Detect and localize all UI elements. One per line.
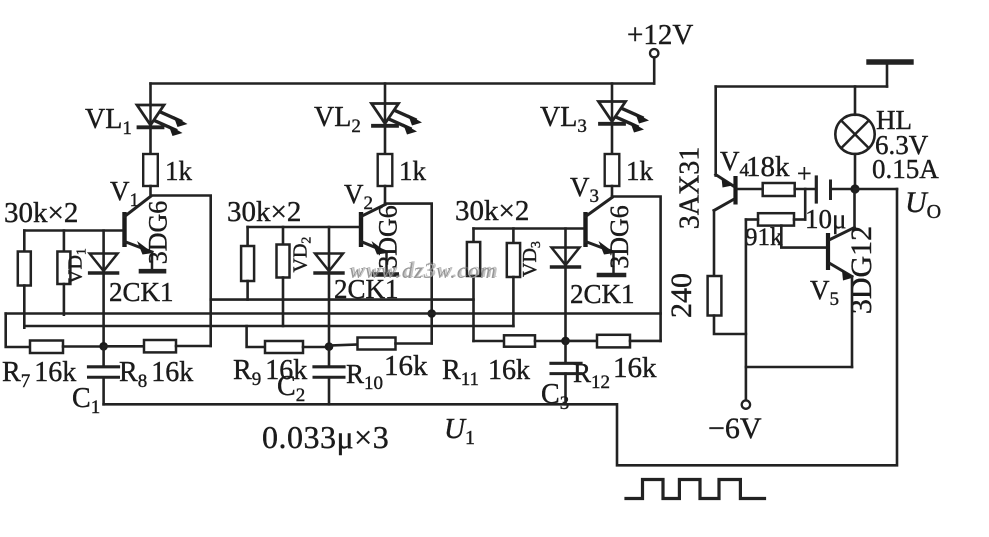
- wire 10μ to node UO: [832, 188, 855, 191]
- resistor 240: [708, 276, 722, 316]
- wire rail to LED VL1: [149, 84, 152, 106]
- svg-text:0.033μ×3: 0.033μ×3: [262, 419, 389, 455]
- svg-text:V2: V2: [344, 179, 373, 214]
- resistor R12: [597, 335, 630, 348]
- lamp HL: [835, 115, 874, 154]
- svg-text:−6V: −6V: [708, 412, 762, 445]
- wire top line down to lamp HL: [854, 87, 857, 115]
- transistor V2: [359, 205, 388, 274]
- wire R7 to node C1: [63, 345, 104, 348]
- wire bus line 2 down to R7: [6, 314, 30, 348]
- transistor V1: [122, 197, 153, 271]
- svg-text:18k: 18k: [746, 151, 790, 183]
- capacitor C3: [564, 341, 567, 363]
- resistor R8: [144, 340, 176, 352]
- svg-text:+12V: +12V: [627, 19, 693, 51]
- wire emitter V5 down: [851, 277, 854, 368]
- wire LED VL1 to 1k resistor: [149, 129, 152, 154]
- svg-text:10μ: 10μ: [805, 204, 846, 234]
- wire 1k to collector of V2: [384, 186, 387, 204]
- wire 30k-b stage2 to bus line 3: [282, 278, 285, 327]
- node UO (lamp/V5 collector): [850, 184, 859, 193]
- svg-text:3DG6: 3DG6: [144, 201, 173, 265]
- node C2: [325, 342, 334, 351]
- svg-text:R10: R10: [346, 359, 383, 394]
- wire 91k right lead: [794, 218, 805, 221]
- capacitor 10μ (electrolytic): [815, 177, 818, 202]
- supply bar (top right): [869, 59, 911, 64]
- wire collector V5 to node UO: [853, 189, 856, 228]
- resistor 1k (stage 1): [143, 154, 158, 186]
- resistor 30k a (stage 3): [472, 229, 475, 243]
- diode VD1: [90, 254, 118, 272]
- wire -6V vertical: [745, 220, 748, 401]
- transistor V5: [826, 228, 855, 281]
- wire LED VL3 to 1k resistor: [611, 126, 614, 155]
- wire supply bar down: [886, 65, 889, 87]
- svg-text:30k×2: 30k×2: [227, 196, 301, 228]
- svg-text:VD2: VD2: [290, 237, 315, 273]
- wire VD3 column (base V3 to node C3): [564, 229, 567, 342]
- svg-text:V1: V1: [110, 176, 139, 211]
- node collector V2 on bus line 2: [427, 309, 436, 318]
- wire 30k-b stage3 to bus line 3 end: [512, 277, 515, 326]
- wire base line V1: [24, 229, 122, 232]
- resistor 30k b (stage 2): [282, 227, 285, 245]
- svg-text:0.15A: 0.15A: [872, 154, 939, 184]
- wire collector V4 down to 240: [713, 211, 716, 277]
- ground (emitter V3): [599, 273, 624, 278]
- diode VD3: [552, 248, 580, 266]
- svg-text:V3: V3: [570, 172, 599, 207]
- wire 1k to collector of V1: [149, 186, 152, 196]
- svg-text:2CK1: 2CK1: [570, 279, 635, 309]
- wire base line V3: [474, 227, 584, 230]
- wire 18k node down to 91k: [804, 189, 807, 220]
- transistor V3: [583, 198, 614, 274]
- resistor R11: [474, 340, 505, 343]
- wire collector V3 feedback (down to R12): [612, 197, 661, 341]
- wire +12V terminal to rail: [653, 58, 656, 84]
- svg-text:C1: C1: [72, 383, 100, 418]
- wire 91k to base V5: [781, 226, 826, 248]
- svg-text:30k×2: 30k×2: [4, 197, 78, 229]
- wire emitter V5 to -6V rail: [746, 366, 852, 369]
- svg-text:VD3: VD3: [519, 241, 544, 277]
- svg-text:2CK1: 2CK1: [109, 277, 174, 307]
- wire bus line 1: [211, 298, 474, 301]
- wire node UO to output line: [855, 188, 897, 191]
- resistor R9: [265, 341, 303, 353]
- terminal -6V: [742, 400, 750, 408]
- node C3: [561, 337, 570, 346]
- svg-text:1k: 1k: [399, 156, 427, 186]
- resistor 30k a (stage 2): [246, 227, 249, 246]
- LED VL1: [149, 105, 152, 127]
- LED VL1 light arrows: [161, 112, 181, 121]
- wire right block top line: [716, 85, 887, 88]
- svg-text:R716k: R716k: [2, 357, 76, 392]
- wire 30k-a stage2 to bus line 1: [246, 281, 249, 300]
- LED VL3: [611, 102, 614, 124]
- svg-text:UO: UO: [905, 186, 941, 223]
- node C1: [99, 342, 108, 351]
- wire VD1 column (base V1 to node C1): [102, 231, 105, 347]
- LED VL3 light arrows: [622, 109, 642, 118]
- wire top supply rail: [151, 82, 655, 85]
- wire bus line 3 down to R9: [247, 326, 265, 347]
- wire R12 to collector V3 line: [630, 340, 661, 343]
- capacitor C2: [328, 347, 331, 366]
- svg-text:VL3: VL3: [540, 102, 587, 137]
- svg-text:www.dz3w.com: www.dz3w.com: [351, 257, 499, 282]
- LED VL2 light arrows: [395, 111, 415, 120]
- svg-text:3AX31: 3AX31: [675, 147, 706, 229]
- svg-text:1k: 1k: [165, 156, 193, 186]
- wire 30k-a stage3 to R11 (past bus line 1): [472, 276, 475, 341]
- wire 1k to collector of V3: [611, 186, 614, 197]
- resistor 18k: [763, 183, 795, 196]
- svg-text:240: 240: [665, 273, 698, 318]
- wire 30k-b stage1 to bus line 2: [63, 284, 66, 315]
- wire bottom rail (C1 C2 C3 common): [104, 189, 897, 465]
- terminal +12V: [650, 49, 658, 57]
- transistor V4 (PNP): [714, 175, 738, 211]
- wire base V4 to 18k: [738, 188, 763, 191]
- resistor R7: [30, 341, 63, 354]
- svg-text:U1: U1: [444, 413, 475, 449]
- wire 91k left lead to -6V rail: [746, 218, 758, 221]
- svg-text:1k: 1k: [626, 156, 654, 186]
- resistor 91k: [758, 213, 794, 225]
- wire node C3 to R12: [566, 340, 598, 343]
- wire node C1 to R8: [104, 345, 144, 348]
- wire bus line 3: [24, 325, 513, 328]
- wire bus line 2: [6, 312, 661, 315]
- wire node C2 to R10: [329, 345, 358, 346]
- wire 18k to capacitor 10μ: [795, 188, 815, 191]
- svg-text:V5: V5: [810, 275, 839, 310]
- wire collector V1 feedback (down to R8): [153, 196, 211, 347]
- ground (emitter V2): [374, 272, 397, 277]
- svg-text:VL2: VL2: [314, 102, 361, 137]
- svg-text:3DG6: 3DG6: [605, 205, 634, 269]
- capacitor C1: [102, 346, 105, 366]
- svg-text:3DG12: 3DG12: [845, 226, 878, 314]
- resistor 30k a (stage 1): [23, 231, 26, 252]
- wire rail to LED VL2: [384, 84, 387, 104]
- svg-text:16k: 16k: [384, 350, 428, 382]
- LED VL2: [384, 104, 387, 126]
- wire VD2 column (base V2 to node C2): [328, 227, 331, 347]
- diode VD2: [315, 254, 343, 272]
- resistor 1k (stage 2): [378, 154, 393, 186]
- wire collector V2 feedback (down to R10): [385, 204, 432, 344]
- resistor 1k (stage 3): [605, 154, 620, 186]
- wire R10 to collector V2 line: [396, 342, 432, 345]
- svg-text:VL1: VL1: [85, 104, 132, 139]
- ground (emitter V1): [141, 269, 164, 274]
- wire R11 to node C3: [535, 340, 566, 343]
- wire 30k-a stage1 to bus line 3: [23, 286, 26, 328]
- svg-text:R1116k: R1116k: [442, 355, 530, 390]
- resistor 30k b (stage 3): [512, 229, 515, 244]
- resistor 30k b (stage 1): [63, 231, 66, 252]
- svg-text:16k: 16k: [613, 352, 657, 384]
- waveform square wave: [626, 480, 765, 499]
- wire base line V2: [248, 226, 359, 229]
- wire LED VL2 to 1k resistor: [384, 128, 387, 155]
- resistor R10: [358, 338, 396, 350]
- wire lamp HL to node UO: [854, 154, 857, 189]
- wire R9 to node C2: [303, 346, 329, 349]
- svg-text:+: +: [797, 159, 812, 188]
- svg-text:30k×2: 30k×2: [455, 195, 529, 227]
- wire rail to LED VL3: [611, 84, 614, 102]
- wire R8 to collector V1 line: [176, 345, 211, 348]
- wire right block left vertical (emitter V4): [714, 87, 717, 176]
- wire 240 to -6V rail: [714, 316, 746, 335]
- svg-text:91k: 91k: [745, 224, 783, 251]
- svg-text:R816k: R816k: [119, 357, 193, 392]
